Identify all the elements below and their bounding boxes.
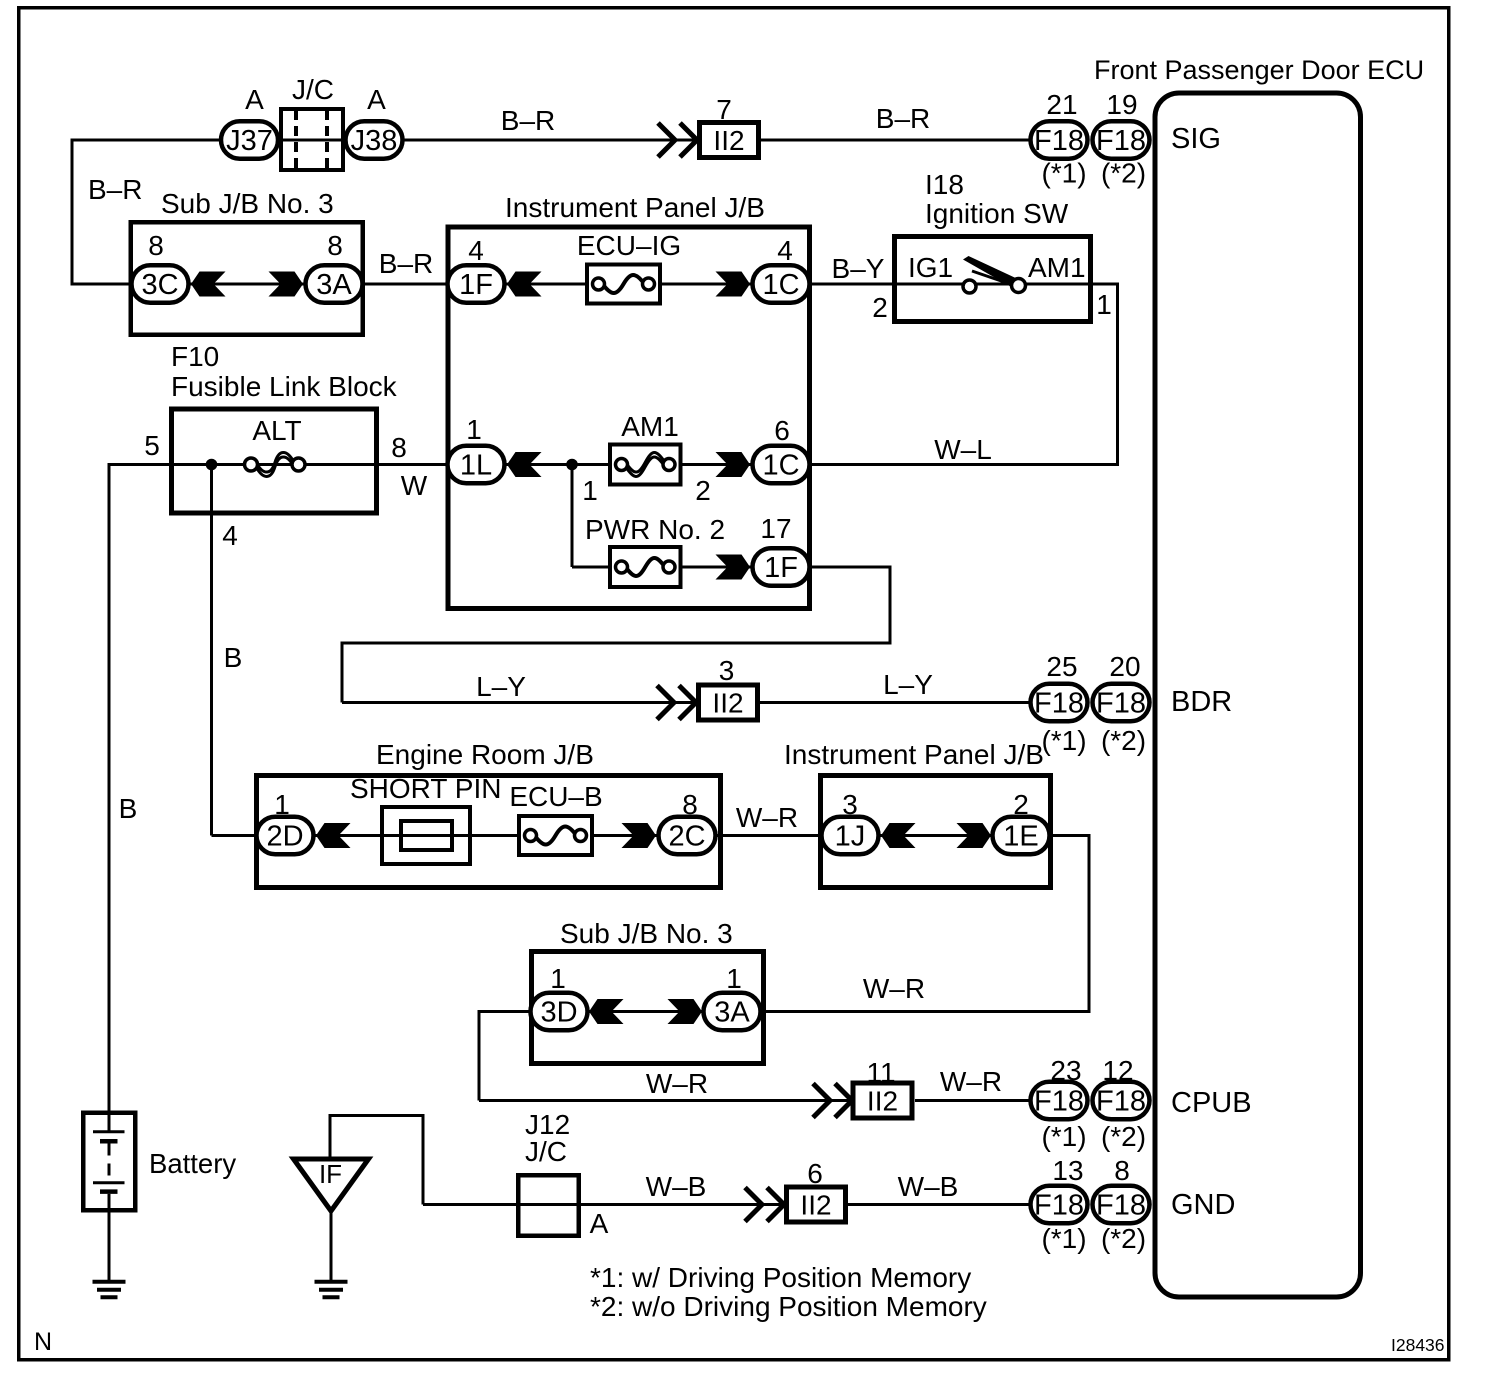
wire W-R 3A to 1E riser	[762, 1010, 1091, 1013]
svg-text:6: 6	[807, 1158, 823, 1189]
svg-text:3: 3	[719, 655, 735, 686]
svg-text:B–R: B–R	[876, 103, 930, 134]
svg-text:W–B: W–B	[898, 1171, 959, 1202]
svg-text:II2: II2	[713, 125, 744, 156]
fuse PWR No.2	[610, 547, 681, 587]
svg-text:19: 19	[1106, 89, 1137, 120]
ground amplifier triangle IF	[294, 1159, 369, 1211]
switch contact AM1	[1012, 279, 1026, 293]
wire PWR fuse to 1F	[683, 566, 753, 569]
svg-text:3A: 3A	[714, 997, 750, 1029]
connector 1L	[448, 446, 505, 484]
connector F18 pair SIG	[1031, 121, 1088, 159]
svg-text:CPUB: CPUB	[1171, 1087, 1252, 1119]
ground (battery)	[93, 1280, 126, 1284]
node junction dot before AM1	[566, 459, 578, 471]
connector II2 (row1)	[700, 123, 759, 158]
svg-text:W–R: W–R	[863, 973, 925, 1004]
svg-text:Ignition SW: Ignition SW	[925, 198, 1069, 229]
wire B-R II2 to F18	[761, 139, 1030, 142]
svg-text:AM1: AM1	[1028, 252, 1086, 283]
svg-text:4: 4	[777, 235, 793, 266]
svg-text:IF: IF	[319, 1159, 342, 1189]
svg-text:F10: F10	[171, 341, 219, 372]
svg-text:(*1): (*1)	[1041, 158, 1086, 189]
svg-text:(*1): (*1)	[1041, 725, 1086, 756]
svg-text:W–R: W–R	[646, 1068, 708, 1099]
switch contact IG1	[963, 280, 976, 293]
svg-text:I18: I18	[925, 169, 964, 200]
svg-text:L–Y: L–Y	[883, 669, 933, 700]
wire short pin to ECU-B fuse	[472, 834, 518, 837]
svg-text:(*2): (*2)	[1101, 725, 1146, 756]
wire battery to ground	[108, 1212, 111, 1281]
wire IF triangle to ground	[330, 1213, 333, 1281]
svg-text:4: 4	[222, 520, 238, 551]
svg-text:W: W	[401, 470, 428, 501]
svg-text:J/C: J/C	[525, 1136, 567, 1167]
wire AM1 fuse to 1C	[683, 463, 753, 466]
svg-text:1F: 1F	[764, 552, 798, 584]
wire vertical B-R left drop	[71, 139, 74, 285]
wire W-R 2C to 1J	[717, 834, 822, 837]
svg-text:F18: F18	[1096, 688, 1146, 720]
svg-text:BDR: BDR	[1171, 686, 1232, 718]
arrow left (to 1F)	[507, 272, 542, 297]
svg-text:F18: F18	[1034, 688, 1084, 720]
chevron arrows into II2 (BDR)	[657, 686, 674, 720]
wire J/C to II2 (GND)	[581, 1203, 786, 1206]
svg-text:1F: 1F	[459, 269, 493, 301]
wire ECU-B fuse to 2C	[594, 834, 658, 837]
svg-text:F18: F18	[1034, 1190, 1084, 1222]
svg-text:Fusible Link Block: Fusible Link Block	[171, 371, 398, 402]
svg-text:W–R: W–R	[940, 1066, 1002, 1097]
wire L-Y II2 to F18	[759, 701, 1030, 704]
svg-text:Front Passenger Door ECU: Front Passenger Door ECU	[1094, 55, 1424, 85]
svg-text:W–L: W–L	[934, 434, 992, 465]
connector 1E	[993, 817, 1050, 855]
wire 3D to 3A (second)	[588, 1010, 703, 1013]
wire 3D left down to CPUB run	[479, 1010, 530, 1013]
fuse ECU-IG	[587, 265, 660, 304]
wire through fusible link block	[171, 463, 449, 466]
arrow right (to 1C row2)	[716, 272, 751, 297]
svg-text:Sub J/B No. 3: Sub J/B No. 3	[161, 188, 334, 219]
connector 1F (row4)	[753, 548, 810, 586]
chevron arrows into II2 (CPUB)	[813, 1084, 830, 1118]
svg-text:B–R: B–R	[501, 105, 555, 136]
svg-text:F18: F18	[1096, 125, 1146, 157]
wire ECU-IG fuse to 1C	[661, 283, 752, 286]
svg-text:*1: w/ Driving Position Memory: *1: w/ Driving Position Memory	[590, 1262, 971, 1293]
svg-text:1: 1	[582, 475, 598, 506]
connector F18 pair CPUB	[1031, 1082, 1088, 1120]
arrow left (to 1J)	[881, 823, 916, 848]
svg-text:(*2): (*2)	[1101, 1223, 1146, 1254]
ECU box Front Passenger Door ECU	[1155, 93, 1361, 1297]
junction box Sub J/B No.3 (second)	[532, 952, 764, 1064]
connector 2C	[659, 817, 716, 855]
svg-text:B: B	[119, 793, 138, 824]
wire B-R from J37 left corner	[72, 139, 221, 142]
svg-text:B–Y: B–Y	[832, 253, 885, 284]
wire 1F to ECU-IG fuse	[504, 283, 586, 286]
svg-text:1J: 1J	[835, 821, 866, 853]
junction box Sub J/B No.3 (first)	[131, 222, 363, 335]
wire 1E right then down to 3A	[1050, 834, 1089, 837]
wire vertical battery feed B	[108, 463, 111, 1111]
ground (IF)	[315, 1280, 348, 1284]
junction block J12 J/C	[518, 1175, 579, 1236]
svg-text:3A: 3A	[316, 269, 352, 301]
node junction dot in fusible link block	[206, 459, 218, 471]
svg-text:ECU–B: ECU–B	[509, 781, 602, 812]
svg-text:F18: F18	[1096, 1190, 1146, 1222]
wire into Sub J/B No.3	[71, 283, 132, 286]
svg-text:Sub J/B No. 3: Sub J/B No. 3	[560, 918, 733, 949]
connector J37	[221, 121, 278, 159]
svg-text:J/C: J/C	[292, 74, 334, 105]
svg-text:SHORT PIN: SHORT PIN	[350, 773, 501, 804]
switch lever	[963, 256, 1019, 289]
wire left into fusible link block	[109, 463, 171, 466]
wire ignition SW down to W-L	[1116, 283, 1119, 465]
svg-text:ECU–IG: ECU–IG	[577, 230, 681, 261]
svg-text:20: 20	[1109, 651, 1140, 682]
svg-text:1L: 1L	[460, 450, 492, 482]
junction box Engine Room J/B	[257, 776, 721, 888]
wire 2D to short pin	[314, 834, 382, 837]
svg-text:Engine Room J/B: Engine Room J/B	[376, 739, 594, 770]
fusible link ALT	[256, 453, 294, 473]
svg-text:2C: 2C	[668, 821, 705, 853]
svg-text:8: 8	[1114, 1155, 1130, 1186]
svg-text:1: 1	[726, 963, 742, 994]
svg-text:J38: J38	[351, 125, 398, 157]
svg-text:PWR No. 2: PWR No. 2	[585, 514, 725, 545]
svg-text:II2: II2	[712, 688, 743, 719]
connector 1C (row3)	[753, 446, 810, 484]
fuse AM1	[610, 445, 681, 485]
switch I18 Ignition SW box	[895, 237, 1091, 322]
svg-text:SIG: SIG	[1171, 123, 1221, 155]
svg-text:1E: 1E	[1003, 821, 1038, 853]
chevron arrows into II2 (GND)	[745, 1188, 762, 1222]
wire II2 to F18 (CPUB)	[915, 1099, 1030, 1102]
connector F18 pair BDR	[1031, 684, 1088, 722]
svg-text:N: N	[34, 1328, 52, 1356]
svg-text:1: 1	[1096, 289, 1112, 320]
wire W-R to II2 (CPUB)	[479, 1099, 854, 1102]
connector 1J	[822, 817, 879, 855]
svg-text:I28436: I28436	[1391, 1335, 1445, 1355]
svg-text:Instrument Panel J/B: Instrument Panel J/B	[784, 739, 1044, 770]
svg-text:GND: GND	[1171, 1189, 1235, 1221]
arrow left (to 3C)	[191, 272, 226, 297]
connector II2 (CPUB)	[853, 1083, 912, 1118]
svg-text:F18: F18	[1034, 125, 1084, 157]
connector 3D	[531, 993, 588, 1031]
svg-text:ALT: ALT	[252, 415, 301, 446]
wire II2 to F18 (GND)	[847, 1203, 1030, 1206]
svg-text:2: 2	[695, 475, 711, 506]
connector 3C	[132, 265, 189, 303]
connector 3A (second)	[704, 993, 761, 1031]
svg-text:6: 6	[774, 415, 790, 446]
svg-text:F18: F18	[1034, 1086, 1084, 1118]
chevron arrows into II2 (row1)	[658, 123, 675, 157]
connector J38	[346, 121, 403, 159]
svg-text:J37: J37	[226, 125, 273, 157]
arrow left (to 1L)	[507, 452, 542, 477]
wire 3C to 3A	[190, 283, 304, 286]
svg-text:21: 21	[1046, 89, 1077, 120]
battery symbol	[108, 1112, 111, 1132]
svg-text:(*1): (*1)	[1041, 1121, 1086, 1152]
svg-text:Battery: Battery	[149, 1148, 236, 1179]
svg-text:W–B: W–B	[646, 1171, 707, 1202]
svg-text:(*2): (*2)	[1101, 158, 1146, 189]
svg-text:1: 1	[550, 963, 566, 994]
junction box Instrument Panel J/B (first)	[448, 227, 810, 609]
junction box Instrument Panel J/B (second)	[821, 776, 1051, 888]
wire W-L 1C to ignition	[810, 463, 1119, 466]
fusible link block box	[172, 409, 377, 513]
arrow right (to 1C row3)	[716, 452, 751, 477]
connector 1C (row2)	[753, 265, 810, 303]
arrow right (to 1F row4)	[716, 555, 751, 580]
svg-text:17: 17	[760, 513, 791, 544]
svg-text:B–R: B–R	[88, 174, 142, 205]
svg-text:B–R: B–R	[379, 248, 433, 279]
connector 1F (row2)	[448, 265, 505, 303]
connector F18 pair GND	[1031, 1186, 1088, 1224]
arrow right (to 3A)	[269, 272, 304, 297]
svg-text:A: A	[245, 84, 264, 115]
wire through ignition switch	[893, 283, 1118, 286]
connector 3A	[306, 265, 363, 303]
wire junction down to Engine Room J/B	[210, 465, 213, 836]
wire 1L to AM1 fuse	[504, 463, 609, 466]
svg-text:1: 1	[466, 414, 482, 445]
svg-text:AM1: AM1	[621, 411, 679, 442]
svg-text:A: A	[590, 1208, 609, 1239]
svg-text:8: 8	[327, 230, 343, 261]
wire L-Y to II2	[342, 701, 697, 704]
connector 2D	[257, 817, 314, 855]
svg-text:*2: w/o Driving Position Memor: *2: w/o Driving Position Memory	[590, 1291, 987, 1322]
battery box	[83, 1113, 135, 1211]
junction block J/C top	[281, 109, 343, 170]
arrow right (to 3A second)	[668, 999, 703, 1024]
svg-text:13: 13	[1052, 1155, 1083, 1186]
svg-text:(*1): (*1)	[1041, 1223, 1086, 1254]
arrow left (to 3D)	[589, 999, 624, 1024]
svg-text:L–Y: L–Y	[476, 671, 526, 702]
arrow right (to 2C)	[622, 823, 657, 848]
svg-text:4: 4	[468, 235, 484, 266]
svg-text:2D: 2D	[266, 821, 303, 853]
svg-text:II2: II2	[867, 1086, 898, 1117]
svg-text:Instrument Panel J/B: Instrument Panel J/B	[505, 192, 765, 223]
wire IF triangle loop	[329, 1114, 332, 1158]
svg-text:3C: 3C	[141, 269, 178, 301]
svg-text:(*2): (*2)	[1101, 1121, 1146, 1152]
svg-text:3D: 3D	[540, 997, 577, 1029]
arrow left (to 2D)	[316, 823, 351, 848]
wire B-R J38 to II2	[404, 139, 698, 142]
svg-text:8: 8	[391, 432, 407, 463]
svg-text:B: B	[224, 642, 243, 673]
wire 1J to 1E	[880, 834, 992, 837]
svg-text:1C: 1C	[762, 450, 799, 482]
svg-text:8: 8	[148, 230, 164, 261]
fuse ECU-B	[519, 816, 592, 855]
svg-text:IG1: IG1	[908, 252, 953, 283]
wire B-R 3A to 1F	[364, 283, 448, 286]
wire junction down to PWR fuse	[571, 465, 574, 568]
svg-text:5: 5	[144, 430, 160, 461]
wire 1F right then down-left to BDR run	[810, 566, 890, 569]
short pin symbol	[382, 807, 470, 864]
svg-text:2: 2	[872, 292, 888, 323]
arrow right (to 1E)	[957, 823, 992, 848]
svg-text:A: A	[367, 84, 386, 115]
connector II2 (GND)	[787, 1187, 846, 1222]
connector II2 (BDR)	[699, 685, 758, 720]
svg-text:W–R: W–R	[736, 802, 798, 833]
svg-text:F18: F18	[1096, 1086, 1146, 1118]
svg-text:25: 25	[1046, 651, 1077, 682]
wire B-Y 1C to ignition SW	[810, 283, 893, 286]
svg-text:II2: II2	[800, 1190, 831, 1221]
svg-text:1C: 1C	[762, 269, 799, 301]
